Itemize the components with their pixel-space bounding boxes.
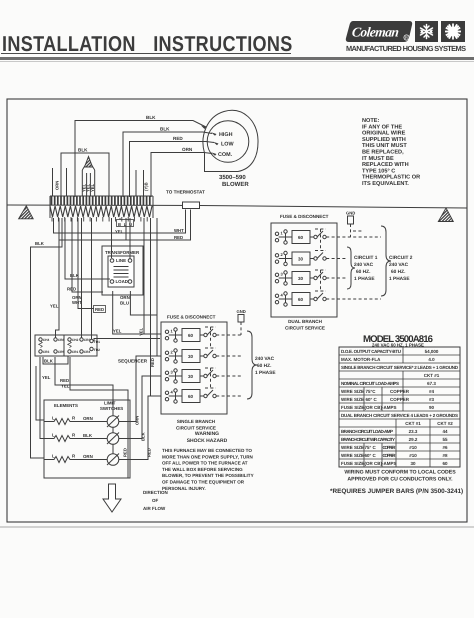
svg-text:67.3: 67.3	[427, 381, 436, 386]
svg-text:YEL: YEL	[61, 384, 70, 389]
svg-text:2: 2	[281, 252, 284, 257]
svg-text:CIRCUIT SERVICE: CIRCUIT SERVICE	[176, 426, 216, 431]
svg-text:ORN: ORN	[135, 416, 140, 425]
svg-text:MAX. MOTOR-FLA: MAX. MOTOR-FLA	[341, 357, 381, 362]
svg-text:CR8: CR8	[58, 338, 65, 342]
svg-text:SEQUENCER: SEQUENCER	[118, 359, 148, 364]
svg-text:*REQUIRES JUMPER BARS (P/N 350: *REQUIRES JUMPER BARS (P/N 3500-3241)	[330, 488, 463, 495]
svg-text:BRANCH CIRCUIT LOAD-AMP: BRANCH CIRCUIT LOAD-AMP	[341, 429, 393, 434]
svg-text:#10: #10	[409, 453, 417, 458]
svg-text:90: 90	[429, 405, 435, 410]
svg-text:SWITCHES: SWITCHES	[100, 406, 123, 411]
svg-text:THIS UNIT MUST: THIS UNIT MUST	[362, 143, 407, 149]
svg-text:FUSE SIZE(OR CB)-AMPS: FUSE SIZE(OR CB)-AMPS	[341, 461, 397, 466]
svg-text:30: 30	[298, 257, 304, 262]
svg-text:WIRE SIZE75°CCOPPER: WIRE SIZE75°CCOPPER	[341, 389, 410, 394]
svg-text:R: R	[72, 416, 76, 421]
svg-text:BE REPLACED,: BE REPLACED,	[362, 150, 404, 156]
svg-text:IT MUST BE: IT MUST BE	[362, 156, 394, 162]
svg-text:SHOCK HAZARD: SHOCK HAZARD	[187, 438, 228, 444]
svg-text:CIRCUIT 1: CIRCUIT 1	[354, 255, 378, 261]
svg-text:OF: OF	[152, 498, 159, 503]
svg-text:YEL: YEL	[113, 329, 122, 334]
svg-text:LIMIT: LIMIT	[104, 401, 116, 406]
svg-text:ITS EQUIVALENT.: ITS EQUIVALENT.	[362, 181, 409, 187]
svg-text:DUAL BRANCH CIRCUIT SERVICE 4: DUAL BRANCH CIRCUIT SERVICE 4 LEADS + 2 …	[341, 413, 458, 418]
svg-text:#8: #8	[442, 453, 448, 458]
svg-text:HIGH: HIGH	[219, 132, 233, 138]
svg-text:IF ANY OF THE: IF ANY OF THE	[362, 124, 402, 130]
svg-text:RED: RED	[123, 448, 128, 457]
svg-text:#10: #10	[409, 445, 417, 450]
svg-text:SUPPLIED WITH: SUPPLIED WITH	[362, 137, 406, 143]
svg-text:TR2: TR2	[94, 348, 100, 352]
svg-text:YEL: YEL	[90, 183, 95, 192]
svg-text:30: 30	[188, 374, 194, 379]
svg-text:NOMINAL CIRCUIT LOAD-AMPS: NOMINAL CIRCUIT LOAD-AMPS	[341, 381, 399, 386]
svg-text:TR1: TR1	[94, 340, 100, 344]
svg-text:THE WALL BOX BEFORE SERVICING: THE WALL BOX BEFORE SERVICING	[162, 467, 243, 472]
svg-text:BLK: BLK	[78, 148, 88, 153]
svg-text:WHT: WHT	[174, 228, 184, 233]
svg-text:BLOWER, TO PREVENT THE POSSIBI: BLOWER, TO PREVENT THE POSSIBILITY	[162, 473, 254, 478]
svg-text:CR3: CR3	[43, 350, 50, 354]
svg-text:ORN: ORN	[120, 295, 130, 300]
svg-text:SINGLE BRANCH CIRCUIT SERVICE*: SINGLE BRANCH CIRCUIT SERVICE* 2 LEADS +…	[341, 365, 459, 370]
svg-text:YEL: YEL	[50, 304, 59, 309]
svg-text:CR1: CR1	[72, 350, 79, 354]
svg-text:1 PHASE: 1 PHASE	[354, 276, 375, 282]
svg-text:GND: GND	[237, 309, 246, 314]
svg-text:WHT: WHT	[72, 300, 82, 305]
svg-text:SINGLE BRANCH: SINGLE BRANCH	[177, 419, 216, 424]
svg-text:OFF ALL POWER TO THE FURNACE A: OFF ALL POWER TO THE FURNACE AT	[162, 461, 248, 466]
svg-text:1: 1	[171, 329, 174, 334]
svg-text:CIRCUIT 2: CIRCUIT 2	[389, 255, 413, 261]
svg-text:YEL: YEL	[115, 229, 124, 234]
svg-text:2: 2	[171, 350, 174, 355]
svg-text:BLK: BLK	[83, 433, 93, 438]
svg-text:BLOWER: BLOWER	[222, 181, 249, 188]
svg-text:4.0: 4.0	[428, 357, 435, 362]
svg-text:1 PHASE: 1 PHASE	[389, 276, 410, 282]
svg-text:30: 30	[188, 354, 194, 359]
svg-text:CKT #2: CKT #2	[437, 421, 453, 426]
svg-text:60 HZ.: 60 HZ.	[391, 269, 405, 275]
svg-text:240 VAC: 240 VAC	[354, 262, 374, 268]
svg-text:RED: RED	[174, 235, 183, 240]
svg-text:THERMOPLASTIC OR: THERMOPLASTIC OR	[362, 175, 420, 181]
svg-text:ORN: ORN	[182, 147, 193, 152]
svg-text:L: L	[52, 433, 55, 438]
svg-text:CR3: CR3	[84, 338, 91, 342]
svg-text:APPROVED FOR CU CONDUCTORS ONL: APPROVED FOR CU CONDUCTORS ONLY.	[347, 477, 453, 483]
svg-text:CKT #1: CKT #1	[405, 421, 421, 426]
svg-text:YEL: YEL	[139, 327, 144, 336]
svg-text:ORN: ORN	[83, 454, 93, 459]
svg-text:44: 44	[442, 429, 448, 434]
svg-text:3: 3	[281, 272, 284, 277]
svg-text:TO THERMOSTAT: TO THERMOSTAT	[166, 190, 205, 195]
svg-text:COM.: COM.	[218, 152, 233, 158]
svg-text:CR5: CR5	[58, 350, 65, 354]
svg-text:BLK: BLK	[44, 359, 54, 364]
svg-text:60 HZ.: 60 HZ.	[356, 269, 370, 275]
svg-text:RED: RED	[173, 136, 183, 141]
svg-text:YEL: YEL	[42, 375, 51, 380]
svg-text:ELEMENTS: ELEMENTS	[54, 403, 78, 408]
svg-text:CIRCUIT SERVICE: CIRCUIT SERVICE	[285, 326, 325, 331]
svg-text:1: 1	[281, 231, 284, 236]
svg-text:L: L	[52, 416, 55, 421]
svg-text:WIRE SIZE75° CCOPPER: WIRE SIZE75° CCOPPER	[341, 445, 396, 450]
svg-text:BLU: BLU	[120, 301, 129, 306]
svg-text:L: L	[52, 454, 55, 459]
svg-text:CH4: CH4	[43, 338, 50, 342]
svg-text:WIRE SIZE60° CCOPPER: WIRE SIZE60° CCOPPER	[341, 453, 396, 458]
svg-text:60: 60	[298, 297, 304, 302]
svg-text:WIRE SIZE60° CCOPPER: WIRE SIZE60° CCOPPER	[341, 397, 410, 402]
svg-text:ORN: ORN	[83, 416, 93, 421]
svg-text:#4: #4	[429, 389, 435, 394]
svg-text:CKT #1: CKT #1	[424, 373, 440, 378]
svg-text:BLK: BLK	[141, 432, 146, 441]
svg-text:NOTE:: NOTE:	[362, 118, 380, 124]
svg-text:MORE THAN ONE POWER SUPPLY, TU: MORE THAN ONE POWER SUPPLY, TURN	[162, 454, 253, 459]
svg-text:RED: RED	[60, 378, 69, 383]
svg-text:CR4: CR4	[84, 350, 91, 354]
svg-text:FUSE SIZE(OR CB)-AMPS: FUSE SIZE(OR CB)-AMPS	[341, 405, 397, 410]
svg-text:RED: RED	[95, 307, 104, 312]
svg-text:29.2: 29.2	[409, 437, 418, 442]
svg-text:4: 4	[171, 390, 174, 395]
svg-text:#6: #6	[442, 445, 448, 450]
svg-text:240 VAC: 240 VAC	[255, 356, 275, 362]
svg-text:RED: RED	[150, 358, 155, 367]
svg-text:DUAL BRANCH: DUAL BRANCH	[288, 319, 323, 324]
svg-text:WIRING MUST CONFORM TO LOCAL C: WIRING MUST CONFORM TO LOCAL CODES	[344, 470, 456, 476]
svg-text:60: 60	[188, 333, 194, 338]
svg-text:60: 60	[298, 235, 304, 240]
svg-text:30: 30	[298, 276, 304, 281]
svg-text:ORN: ORN	[55, 181, 60, 190]
svg-text:60: 60	[442, 461, 448, 466]
svg-text:OF DAMAGE TO THE EQUIPMENT OR: OF DAMAGE TO THE EQUIPMENT OR	[162, 480, 245, 485]
svg-text:BLK: BLK	[146, 115, 156, 120]
svg-text:240 VAC: 240 VAC	[389, 262, 409, 268]
svg-text:30: 30	[410, 461, 416, 466]
svg-text:60: 60	[188, 394, 194, 399]
svg-text:REPLACED WITH: REPLACED WITH	[362, 162, 409, 168]
svg-text:1 PHASE: 1 PHASE	[255, 370, 276, 376]
svg-text:DIRECTION: DIRECTION	[143, 490, 168, 495]
svg-text:LOAD: LOAD	[116, 279, 128, 284]
svg-text:RED: RED	[67, 287, 76, 292]
svg-text:4: 4	[281, 293, 284, 298]
svg-text:ORIGINAL WIRE: ORIGINAL WIRE	[362, 131, 406, 137]
svg-text:54,000: 54,000	[425, 349, 439, 354]
svg-text:RED: RED	[147, 448, 152, 457]
svg-text:AIR FLOW: AIR FLOW	[143, 506, 166, 511]
svg-text:3: 3	[171, 370, 174, 375]
svg-text:WARNING: WARNING	[195, 431, 219, 437]
svg-text:R: R	[72, 454, 76, 459]
svg-text:3500–590: 3500–590	[219, 174, 246, 181]
svg-text:GND: GND	[346, 211, 355, 216]
svg-text:CH2: CH2	[72, 338, 79, 342]
svg-text:BLK: BLK	[160, 127, 170, 132]
svg-text:(Y)B: (Y)B	[144, 182, 149, 191]
svg-text:THIS FURNACE MAY BE CONNECTED: THIS FURNACE MAY BE CONNECTED TO	[162, 448, 252, 453]
svg-text:BLK: BLK	[35, 241, 45, 246]
svg-text:23.3: 23.3	[409, 429, 418, 434]
svg-text:TRANSFORMER: TRANSFORMER	[105, 250, 140, 255]
svg-text:60 HZ.: 60 HZ.	[257, 363, 271, 369]
svg-text:LOW: LOW	[221, 142, 234, 148]
svg-text:PERSONAL INJURY.: PERSONAL INJURY.	[162, 486, 206, 491]
svg-text:BRANCH CIRCUIT WIR. CAPACITY: BRANCH CIRCUIT WIR. CAPACITY	[341, 437, 395, 442]
svg-text:FUSE & DISCONNECT: FUSE & DISCONNECT	[280, 214, 329, 219]
svg-text:FUSE & DISCONNECT: FUSE & DISCONNECT	[167, 315, 216, 320]
svg-text:BLK: BLK	[70, 273, 80, 278]
svg-text:55: 55	[442, 437, 448, 442]
svg-text:#3: #3	[429, 397, 435, 402]
svg-text:R: R	[72, 433, 76, 438]
svg-text:TYPE 105° C: TYPE 105° C	[362, 168, 395, 174]
svg-text:D.O.E. OUTPUT CAPACITY-BTU: D.O.E. OUTPUT CAPACITY-BTU	[341, 349, 401, 354]
svg-text:LINE: LINE	[116, 258, 126, 263]
